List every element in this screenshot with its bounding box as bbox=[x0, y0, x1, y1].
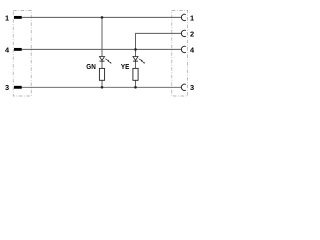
wire net 1 (pin1 left to pin1 right) bbox=[22, 16, 182, 18]
svg-text:2: 2 bbox=[190, 29, 194, 38]
label YE bbox=[121, 64, 130, 71]
LED D2 (YE) triangle bbox=[133, 57, 138, 61]
svg-text:GN: GN bbox=[86, 64, 96, 71]
LED D1 light arrow b bbox=[108, 61, 112, 64]
junction dot net3/GN bbox=[101, 86, 104, 89]
resistor R2 bbox=[133, 68, 138, 80]
LED D2 cathode bar bbox=[133, 60, 138, 62]
left pin 4 contact bbox=[14, 48, 22, 51]
resistor R1 bbox=[99, 68, 104, 80]
wire net 3 (pin3 left to pin3 right) bbox=[22, 86, 182, 88]
LED D1 cathode bar bbox=[99, 60, 104, 62]
svg-text:1: 1 bbox=[5, 13, 9, 22]
YE branch wire (junction down to pin3) bbox=[135, 49, 137, 87]
LED D2 light arrow b bbox=[141, 61, 145, 64]
LED D1 (GN) triangle bbox=[99, 57, 104, 61]
svg-text:4: 4 bbox=[5, 45, 10, 54]
wire pin2 right to YE branch bbox=[136, 33, 182, 49]
left pin 1 contact bbox=[14, 16, 22, 19]
svg-text:3: 3 bbox=[5, 83, 9, 92]
junction dot net4/YE bbox=[134, 48, 137, 51]
right socket contact pin 1 bbox=[181, 14, 186, 20]
right socket contact pin 4 bbox=[181, 46, 186, 52]
LED D1 light arrow a bbox=[105, 59, 109, 62]
svg-text:1: 1 bbox=[190, 13, 194, 22]
right connector X2 outline bbox=[172, 10, 188, 96]
junction dot net3/YE bbox=[134, 86, 137, 89]
label GN bbox=[86, 64, 96, 71]
GN branch wire (pin1 down to pin3) bbox=[101, 17, 103, 87]
left connector X1 outline bbox=[13, 10, 31, 96]
svg-text:4: 4 bbox=[190, 45, 195, 54]
wire net 4 (pin4 left to pin4 right) bbox=[22, 48, 182, 50]
LED D2 light arrow a bbox=[139, 59, 143, 62]
left pin 3 contact bbox=[14, 86, 22, 89]
right socket contact pin 3 bbox=[181, 84, 186, 90]
svg-text:3: 3 bbox=[190, 83, 194, 92]
junction dot net1/GN bbox=[101, 16, 104, 19]
svg-text:YE: YE bbox=[121, 64, 130, 71]
right socket contact pin 2 bbox=[181, 30, 186, 36]
